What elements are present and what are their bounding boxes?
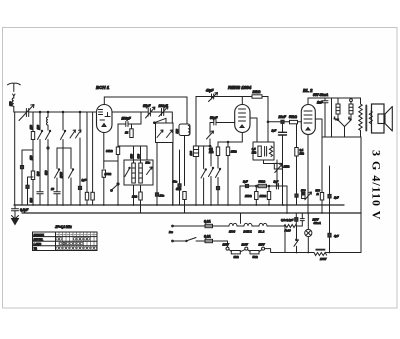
resistor 20k anode bbox=[252, 95, 262, 98]
svg-text:0,1: 0,1 bbox=[300, 148, 304, 152]
wire BL2 cathode down bbox=[307, 135, 309, 214]
capacitor 4uF bbox=[328, 233, 331, 237]
transformer secondary bbox=[369, 111, 372, 123]
svg-text:10: 10 bbox=[51, 187, 54, 191]
heater BL2 bbox=[259, 223, 267, 226]
jack circle bbox=[350, 99, 353, 102]
capacitor 1uF cathode bbox=[282, 123, 284, 132]
svg-text:20nF: 20nF bbox=[278, 115, 287, 119]
svg-text:100: 100 bbox=[36, 125, 40, 130]
svg-text:TA: TA bbox=[34, 247, 37, 251]
coil x48 bbox=[46, 117, 48, 130]
svg-text:500: 500 bbox=[29, 198, 33, 203]
svg-text:0,6A: 0,6A bbox=[204, 220, 211, 224]
variable capacitor in can 1 bbox=[157, 130, 163, 138]
svg-text:30kΩ: 30kΩ bbox=[106, 149, 113, 153]
svg-text:200: 200 bbox=[189, 151, 193, 157]
band switch table bbox=[33, 232, 98, 251]
capacitor 1uF bars bbox=[276, 184, 278, 190]
variable capacitor pair x72-80 bbox=[70, 130, 76, 138]
svg-text:1µF: 1µF bbox=[272, 129, 277, 133]
capacitor 20nF grid bbox=[268, 121, 281, 123]
svg-text:45mA: 45mA bbox=[313, 221, 321, 225]
switch in IF can bbox=[125, 168, 130, 177]
svg-text:500: 500 bbox=[36, 171, 40, 176]
svg-text:0,5: 0,5 bbox=[252, 147, 256, 151]
svg-text:150: 150 bbox=[29, 155, 33, 160]
svg-text:97pF: 97pF bbox=[143, 104, 151, 108]
wire x118 drop to 30k bbox=[117, 124, 119, 147]
mains switch bbox=[186, 238, 196, 242]
switch contact x48 bbox=[46, 131, 51, 140]
wire x287 drop bbox=[286, 186, 288, 213]
svg-text:550: 550 bbox=[44, 170, 48, 175]
wire branch x80 bbox=[79, 112, 81, 186]
svg-text:RENS 1884: RENS 1884 bbox=[228, 85, 252, 90]
svg-text:40n: 40n bbox=[172, 180, 178, 184]
node dots on grid wire bbox=[39, 111, 41, 113]
capacitor in loop bbox=[265, 147, 267, 157]
antenna bbox=[8, 83, 21, 91]
wire branch x33 bbox=[32, 112, 34, 132]
capacitor 1uF block bbox=[239, 186, 241, 205]
variable capacitor in can 2 bbox=[167, 130, 173, 138]
wire branch x92.6 bbox=[92, 112, 94, 192]
wire branch x57 bbox=[56, 148, 58, 169]
resistor 150 bbox=[31, 132, 34, 140]
wire branch x27.5 bbox=[28, 177, 34, 185]
svg-text:100V: 100V bbox=[320, 257, 326, 261]
wire x203.6 bbox=[203, 146, 205, 169]
svg-text:1894: 1894 bbox=[229, 230, 235, 234]
svg-text:20n: 20n bbox=[159, 194, 165, 198]
wire stubs bus1 to bus2 bbox=[141, 205, 185, 213]
resistor 3k bbox=[229, 250, 231, 252]
svg-text:MITTEL: MITTEL bbox=[34, 237, 44, 241]
resistor zigzag Fe60 bbox=[284, 225, 302, 228]
GROUPS INSERTED BELOW bbox=[12, 204, 362, 253]
switch contact x57 bbox=[55, 169, 60, 178]
wire branch x40 bbox=[39, 112, 41, 130]
tube RENS1884 electrodes bbox=[239, 109, 246, 121]
resistor x92.6 bbox=[91, 192, 94, 200]
capacitor across 100V bbox=[316, 249, 326, 251]
svg-text:1MΩ: 1MΩ bbox=[231, 150, 238, 154]
wire heater right link bbox=[284, 226, 297, 240]
resistor 1k x131.5 bbox=[131, 124, 133, 129]
svg-text:120V: 120V bbox=[242, 243, 248, 247]
svg-text:50pF: 50pF bbox=[210, 116, 218, 120]
capacitor 20nF block bbox=[155, 193, 158, 196]
svg-text:40pF: 40pF bbox=[205, 89, 214, 93]
wire grid continuation right of tube bbox=[112, 111, 148, 113]
resistor 0,1M cathode bbox=[296, 124, 298, 148]
svg-text:100pF: 100pF bbox=[122, 117, 132, 121]
tube RENS1884 envelope bbox=[235, 105, 250, 133]
wire x172.8 bbox=[172, 143, 174, 206]
wire AF row bbox=[240, 185, 287, 187]
wire BL2 anode bbox=[315, 119, 322, 137]
tube BCH1 electrodes bbox=[99, 110, 103, 115]
wire x285 riser bbox=[284, 226, 286, 253]
wire link y161 bbox=[104, 160, 118, 162]
capacitor 0,1uF at ground bbox=[12, 205, 19, 216]
wire x196 drop bbox=[195, 97, 197, 147]
coil 200 choke bbox=[193, 146, 198, 157]
svg-text:0,1µF: 0,1µF bbox=[20, 208, 29, 212]
svg-text:1MΩ: 1MΩ bbox=[284, 165, 291, 169]
resistor 0,1M bbox=[217, 142, 219, 147]
resistor x87 bbox=[85, 192, 88, 200]
svg-text:JF=4,8 kHz: JF=4,8 kHz bbox=[55, 225, 72, 229]
lamp 110V 45mA bbox=[307, 213, 309, 229]
svg-text:1kΩ: 1kΩ bbox=[132, 195, 138, 199]
svg-text:50kΩ: 50kΩ bbox=[289, 115, 297, 119]
wire screen down x322 bbox=[321, 137, 323, 193]
resistor 30k bbox=[116, 147, 119, 155]
wire BCH1 cathode bbox=[103, 133, 105, 169]
wire RENS top lead bbox=[196, 97, 252, 105]
oscillator can bbox=[156, 123, 174, 143]
svg-text:BL 2: BL 2 bbox=[303, 88, 313, 93]
IF can lower bbox=[124, 160, 153, 185]
resistor 200 bbox=[102, 170, 105, 177]
wire loop to x211 bbox=[196, 146, 211, 166]
table contacts row 4 bbox=[56, 247, 97, 250]
wire right riser bbox=[360, 137, 362, 252]
tube BL2 electrodes bbox=[304, 111, 312, 123]
svg-text:0,6A: 0,6A bbox=[204, 235, 211, 239]
wire x187 drop bbox=[186, 97, 188, 124]
svg-text:1µF: 1µF bbox=[274, 180, 279, 184]
capacitor 1uF bars power bbox=[300, 213, 304, 226]
coil Lp bbox=[350, 102, 352, 104]
wire bus 3 bbox=[285, 252, 314, 254]
junction dots bus1 bbox=[32, 204, 330, 253]
wire branch x48 bbox=[47, 112, 49, 117]
svg-text:110V: 110V bbox=[259, 243, 265, 247]
svg-text:550: 550 bbox=[175, 129, 179, 134]
svg-text:BL 2: BL 2 bbox=[259, 230, 265, 234]
speaker cone bbox=[378, 114, 385, 124]
switch contact x211 bbox=[209, 168, 214, 177]
variable capacitor antenna trimmer bbox=[19, 105, 34, 121]
svg-text:550: 550 bbox=[129, 154, 133, 159]
svg-text:1µF: 1µF bbox=[82, 178, 87, 182]
output box left wire bbox=[331, 98, 333, 137]
resistor 5k bbox=[183, 192, 186, 200]
wire branch x22 bbox=[22, 150, 33, 166]
capacitor block x219 bbox=[216, 187, 219, 190]
svg-text:1000: 1000 bbox=[59, 172, 63, 178]
speaker frame bbox=[372, 104, 385, 133]
table contacts row 2 bbox=[56, 238, 90, 241]
capacitor block x22 bbox=[20, 166, 23, 169]
wire loop bottom to volume pot bbox=[264, 160, 278, 186]
svg-text:1µF: 1µF bbox=[334, 196, 339, 200]
wire grid line to BCH1 bbox=[14, 111, 97, 113]
capacitor x57 bbox=[54, 192, 60, 205]
switch contact x71 bbox=[69, 169, 74, 178]
wire heater tap to bus bbox=[240, 213, 242, 223]
wire cathode RENS bbox=[218, 133, 242, 143]
capacitor block x27.5 bbox=[26, 185, 29, 188]
coil 560 bbox=[139, 163, 143, 183]
capacitor 1uF right bbox=[328, 194, 331, 198]
coil 550 bbox=[132, 163, 136, 183]
wire chassis bus 1 bbox=[14, 204, 344, 206]
svg-text:50kΩ: 50kΩ bbox=[259, 180, 266, 184]
wire branch x87 bbox=[86, 112, 88, 192]
potentiometer 1M bbox=[274, 163, 282, 169]
wire output box bottom bbox=[322, 136, 361, 138]
switch contact x63 bbox=[61, 131, 66, 140]
capacitor x40 bbox=[37, 192, 43, 205]
wire antenna down lead bbox=[13, 106, 16, 205]
svg-text:10kΩ: 10kΩ bbox=[260, 194, 267, 198]
switch power bbox=[294, 240, 299, 247]
resistor 50ohm bbox=[250, 251, 259, 254]
svg-text:KURZW.: KURZW. bbox=[34, 233, 45, 237]
svg-text:BCH 1: BCH 1 bbox=[244, 230, 253, 234]
wires above coils bbox=[118, 146, 147, 163]
svg-text:25kΩ: 25kΩ bbox=[244, 194, 252, 198]
mains line 1 bbox=[172, 225, 174, 227]
svg-text:20n: 20n bbox=[145, 161, 151, 165]
svg-text:50Ω: 50Ω bbox=[253, 255, 259, 259]
resistor 150 lower bbox=[31, 171, 34, 180]
table contacts row 3 bbox=[59, 242, 82, 245]
transformer primary bbox=[359, 98, 362, 137]
switch contact x40 bbox=[38, 131, 43, 140]
capacitor blob x296.5 bbox=[295, 194, 298, 197]
svg-text:0,1+0,1µF: 0,1+0,1µF bbox=[281, 218, 294, 222]
switch contact x203.6 bbox=[201, 169, 206, 178]
capacitor 40nF bbox=[179, 150, 181, 184]
table header marks bbox=[57, 234, 97, 236]
resistor 10k bbox=[268, 186, 270, 192]
heater 1894 bbox=[229, 223, 237, 226]
switch contact x218 bbox=[216, 169, 221, 178]
wire RENS anode right bbox=[250, 118, 257, 142]
svg-text:4µF: 4µF bbox=[333, 234, 339, 238]
switch oscillator bbox=[154, 118, 166, 123]
wires below can bbox=[134, 185, 141, 205]
wire Y junction bbox=[338, 120, 351, 137]
svg-text:BCH 1: BCH 1 bbox=[96, 85, 110, 90]
wire to x268 drop bbox=[262, 97, 268, 143]
resistor zigzag 100V bbox=[314, 253, 327, 256]
coil 550 can bbox=[179, 124, 190, 136]
wire branch x71 bbox=[70, 148, 72, 169]
wire selector to bus3 bbox=[265, 249, 285, 253]
wire bus 2 bbox=[22, 212, 361, 214]
coil Lreg bbox=[337, 98, 339, 104]
coil antenna input bbox=[12, 98, 14, 106]
wire can drops bbox=[157, 136, 185, 206]
tube BCH1 envelope bbox=[97, 105, 113, 133]
tube BL2 envelope bbox=[301, 105, 315, 135]
wire x141 link bbox=[140, 112, 142, 124]
svg-text:1µF: 1µF bbox=[243, 180, 248, 184]
resistor 50k bbox=[258, 184, 267, 187]
svg-text:150: 150 bbox=[9, 101, 13, 106]
svg-text:95V 40mA: 95V 40mA bbox=[313, 93, 329, 97]
resistor 25k bbox=[255, 186, 257, 192]
wire branch x63 bbox=[62, 112, 64, 130]
svg-text:560: 560 bbox=[136, 154, 140, 159]
svg-text:LANG: LANG bbox=[34, 242, 42, 246]
node dot x118 bbox=[117, 183, 119, 185]
variable capacitor x210 bbox=[207, 131, 214, 139]
svg-text:110V: 110V bbox=[313, 218, 319, 222]
svg-text:200Ω: 200Ω bbox=[104, 172, 112, 176]
svg-text:500: 500 bbox=[301, 189, 306, 193]
svg-text:3kΩ: 3kΩ bbox=[234, 255, 240, 259]
transformer core bbox=[365, 106, 367, 131]
heater BCH1 bbox=[244, 223, 252, 226]
svg-text:20kΩ: 20kΩ bbox=[252, 90, 261, 94]
svg-text:2m: 2m bbox=[168, 230, 173, 234]
svg-text:1k: 1k bbox=[125, 131, 128, 135]
svg-text:135V: 135V bbox=[223, 243, 229, 247]
svg-text:3 G 4/110 V: 3 G 4/110 V bbox=[370, 150, 384, 220]
ground bbox=[12, 211, 19, 219]
wire BL2 top lead bbox=[308, 98, 361, 105]
mains line 2 bbox=[172, 240, 174, 242]
resistor zigzag in loop bbox=[269, 146, 272, 157]
svg-text:150: 150 bbox=[29, 125, 33, 130]
svg-text:500: 500 bbox=[316, 189, 321, 193]
detector loop box bbox=[253, 142, 274, 160]
resistor 1M bbox=[227, 142, 229, 147]
resistor 1k below can bbox=[139, 192, 142, 200]
switch with dot mid bbox=[111, 186, 117, 191]
wire BCH1 anode top lead bbox=[104, 97, 187, 105]
